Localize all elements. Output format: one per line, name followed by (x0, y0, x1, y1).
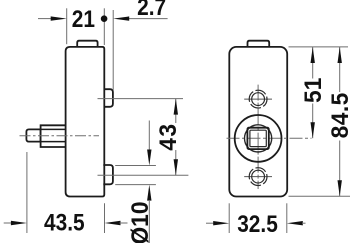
lower screw hole crosshair (244, 176, 272, 178)
boss horizontal centerline (227, 137, 312, 139)
dimension 2.7 arrow (113, 16, 129, 20)
dimension 43 line (175, 99, 177, 176)
dimension 2.7 extension line (112, 10, 114, 90)
dimension 51 arrow down (311, 122, 315, 138)
spindle shaft (small step) (26, 129, 40, 141)
dimension 32.5 leader right (302, 222, 306, 224)
dimension 32.5 arrow left (213, 221, 229, 225)
dimension 21 extension line left (66, 8, 68, 44)
dimension 21 arrow (51, 16, 67, 20)
right view top tab (248, 41, 270, 47)
dimension 21 extension line right (103, 8, 105, 45)
dimension 43 arrow down (174, 159, 178, 175)
dimension 84.5 arrow up (338, 47, 342, 63)
lower pin centerline extension (98, 174, 189, 176)
dimension 32.5 extension line left (228, 203, 230, 233)
dimension 51 line upper (312, 47, 314, 79)
upper screw hole inner circle (252, 93, 265, 106)
dimension diameter 10 arrow up (147, 185, 151, 201)
dimension 84.5 line upper (339, 47, 341, 92)
dimension diameter 10 lower line (148, 200, 150, 243)
dimension 43.5 extension line right (104, 203, 106, 233)
dimension 43 arrow up (174, 99, 178, 115)
shaft lines through hub (41, 129, 66, 141)
dimension diameter 10 arrow down (147, 150, 151, 166)
dimension 43.5 leader right (120, 222, 128, 224)
svg-text:Ø10: Ø10 (126, 201, 153, 243)
svg-text:43.5: 43.5 (44, 209, 85, 236)
lower pin bottom extension line (115, 184, 156, 186)
right view body (229, 47, 287, 197)
dimension 51 arrow up (311, 47, 315, 63)
dimension 51 line lower (312, 104, 314, 139)
spindle centerline (20, 135, 100, 137)
bottom extension line right view (289, 195, 350, 197)
vertical centerline (257, 85, 259, 189)
dimension 84.5 line lower (339, 141, 341, 197)
square spindle hole outer (247, 128, 268, 149)
left view top tab (77, 41, 97, 47)
upper right pin (104, 89, 113, 107)
dimension 43.5 arrow right (105, 221, 121, 225)
lower right pin (103, 165, 113, 184)
upper screw hole thread circle (249, 90, 267, 108)
left view body (66, 47, 105, 197)
svg-text:2.7: 2.7 (137, 0, 166, 20)
svg-text:43: 43 (155, 122, 182, 150)
dimension 21 leader (38, 18, 52, 20)
dimension 21 dot (101, 15, 108, 22)
svg-text:51: 51 (299, 78, 326, 103)
boss outer circle (235, 115, 282, 162)
lower screw hole inner circle (252, 170, 265, 183)
dimension 2.7 leader (128, 18, 168, 20)
dimension diameter 10 upper line (148, 121, 150, 151)
upper pin centerline extension (98, 98, 184, 100)
dimension 84.5 arrow down (338, 180, 342, 196)
svg-text:32.5: 32.5 (237, 211, 278, 238)
boss inner circle (245, 125, 272, 152)
square spindle hole inner (250, 130, 266, 146)
dimension 32.5 extension line right (286, 203, 288, 233)
lower pin top extension line (115, 165, 156, 167)
dimension 43.5 extension line left (26, 152, 28, 233)
upper screw hole crosshair (244, 98, 272, 100)
dimension 43.5 leader left (4, 222, 12, 224)
spindle hub (large step) (41, 125, 66, 147)
svg-text:84.5: 84.5 (326, 92, 350, 138)
dimension 32.5 leader left (206, 222, 214, 224)
dimension 32.5 arrow right (287, 221, 303, 225)
dimension 43.5 arrow left (11, 221, 27, 225)
lower screw hole thread circle (249, 168, 267, 186)
top extension line right view (289, 46, 349, 48)
svg-text:21: 21 (72, 6, 95, 33)
